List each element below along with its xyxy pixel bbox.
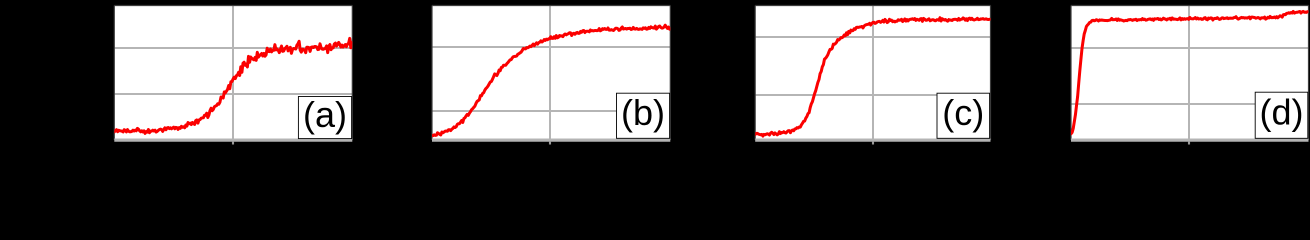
panel (b) top spine [432,5,670,7]
panel (c) horizontal gridline 1 [755,36,990,38]
panel (c) vertical gridline [872,6,874,141]
panel (a) left spine [113,6,115,141]
svg-text:(c): (c) [942,92,984,133]
panel (c) horizontal gridline 2 [755,94,990,96]
panel (c) bottom axis line [755,139,990,142]
panel (a) center tick mark [232,142,234,145]
panel (a) label box [298,97,351,139]
panel (c) top spine [755,5,990,7]
panel (b) left spine [431,6,433,141]
panel (b) axes background [432,6,670,141]
panel (b) right spine [669,6,671,141]
panel (a) horizontal gridline 1 [114,47,352,49]
panel (c) label box [937,93,990,138]
panel (b) center tick mark [549,142,551,145]
svg-text:(a): (a) [303,94,347,135]
panel (d) right spine [1308,6,1310,141]
panel (c) center tick mark [872,142,874,145]
panel (b) vertical gridline [549,6,551,141]
panel (c) right spine [990,6,992,141]
panel (b) horizontal gridline 1 [432,46,670,48]
panel (a) top spine [114,5,352,7]
panel (d) top spine [1071,5,1309,7]
panel (c) left spine [754,6,756,141]
panel (d) center tick mark [1188,142,1190,145]
panel (d) horizontal gridline 2 [1071,103,1309,105]
svg-text:(b): (b) [621,92,665,133]
panel (b) red curve [432,25,670,135]
panel (d) axes background [1071,6,1309,141]
panel (b) label box [617,93,670,138]
panel (d) left spine [1070,6,1072,141]
svg-text:(d): (d) [1260,92,1304,133]
panel (d) red curve [1071,11,1308,133]
panel (a) right spine [351,6,353,141]
panel (a) axes background [114,6,352,141]
panel (d) vertical gridline [1188,6,1190,141]
panel (b) bottom axis line [432,139,670,142]
panel (d) label box [1255,92,1308,138]
panel (a) vertical gridline [232,6,234,141]
panel (a) horizontal gridline 2 [114,93,352,95]
panel (c) red curve [755,18,989,136]
panel (d) bottom axis line [1071,139,1309,142]
panel (a) bottom axis line [114,139,352,142]
panel (d) horizontal gridline 1 [1071,47,1309,49]
panel (b) horizontal gridline 2 [432,110,670,112]
panel (c) axes background [755,6,990,141]
panel (a) red curve [114,38,352,133]
